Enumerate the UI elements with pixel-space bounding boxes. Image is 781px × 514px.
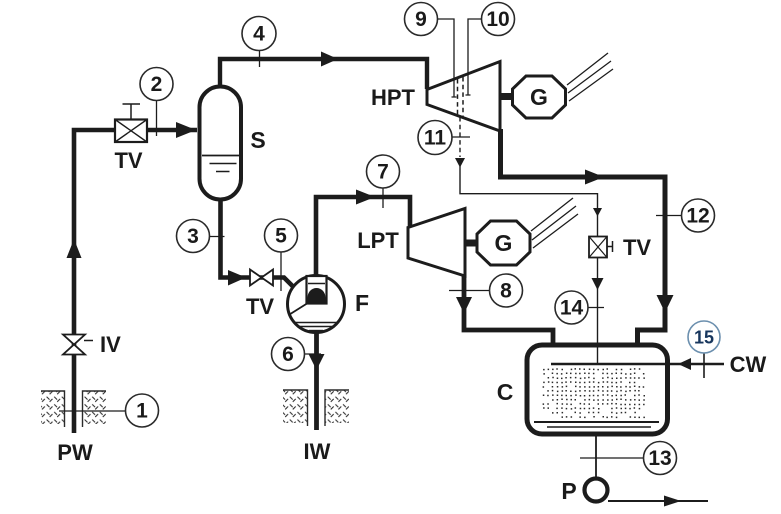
svg-text:G: G [495, 230, 513, 256]
generator G1 shaft [499, 93, 514, 100]
svg-text:IV: IV [100, 332, 121, 357]
generator G2 [477, 221, 530, 265]
transmission lines G1 [567, 53, 613, 101]
svg-text:8: 8 [500, 280, 512, 303]
valve TV3 [589, 237, 613, 258]
arrow on pump discharge [664, 496, 681, 507]
arrow on HPT exhaust [585, 170, 604, 185]
node 15 [688, 321, 720, 378]
svg-text:6: 6 [282, 343, 294, 366]
ground hatch left of PW [41, 391, 65, 427]
node 1 [59, 394, 159, 427]
svg-text:12: 12 [686, 205, 709, 228]
condenser C body [527, 345, 668, 434]
valve TV1 [115, 104, 147, 142]
svg-text:TV: TV [623, 235, 651, 260]
arrow before TV2 [228, 270, 246, 286]
wire: LPT exhaust to condenser [464, 274, 553, 346]
wire: HPT exhaust to condenser [501, 129, 666, 346]
node 6 [272, 338, 322, 371]
svg-text:IW: IW [304, 439, 331, 464]
ground hatch right of PW [83, 391, 107, 427]
arrow on steam line [321, 52, 338, 67]
node 4 [242, 17, 276, 68]
arrow CW into condenser [678, 358, 691, 370]
node 9 [405, 3, 457, 98]
separator S [200, 87, 242, 200]
svg-text:1: 1 [136, 400, 148, 423]
svg-text:11: 11 [424, 127, 447, 150]
cooling water line CW [551, 363, 724, 365]
node 7 [367, 155, 400, 208]
svg-text:S: S [250, 127, 265, 153]
svg-text:P: P [561, 478, 576, 504]
flasher F internals [290, 276, 339, 331]
ground hatch left of IW [283, 390, 308, 426]
arrow down LPT exhaust [456, 297, 472, 314]
svg-text:CW: CW [730, 352, 767, 377]
svg-text:3: 3 [187, 225, 199, 248]
transmission lines G2 [531, 198, 578, 248]
svg-text:14: 14 [560, 297, 584, 320]
extraction line below HPT [455, 117, 602, 237]
extraction dashed lines inside HPT [458, 77, 464, 118]
wire: steam line S to HPT [220, 59, 427, 90]
generator G1 [513, 76, 566, 118]
svg-text:TV: TV [246, 294, 274, 319]
arrow down right pipe [657, 295, 674, 313]
svg-text:G: G [530, 84, 548, 110]
node 11 [418, 121, 470, 155]
ground hatch right of IW [325, 390, 349, 426]
condenser level lines [534, 421, 659, 423]
svg-text:9: 9 [415, 8, 427, 31]
svg-text:F: F [355, 290, 369, 316]
condenser spray dots [543, 368, 645, 418]
svg-text:10: 10 [486, 8, 509, 31]
svg-text:4: 4 [253, 23, 265, 46]
svg-text:PW: PW [57, 440, 93, 465]
svg-text:13: 13 [648, 447, 671, 470]
arrow into separator [176, 122, 196, 138]
wire: steam line F to LPT [316, 197, 410, 279]
wire: brine line S bottom to flasher [221, 198, 299, 292]
arrow down IW pipe [309, 354, 325, 370]
node 12 [656, 199, 715, 232]
node 3 [177, 220, 225, 253]
extraction line TV3 to condenser [592, 257, 604, 345]
wire: IW injection pipe [314, 332, 319, 430]
svg-text:5: 5 [275, 225, 287, 248]
node 14 [555, 291, 604, 324]
arrow on LPT steam line [356, 190, 375, 205]
spray line inside condenser [597, 345, 599, 364]
node 8 [449, 274, 523, 307]
svg-text:C: C [497, 379, 514, 405]
pump P [585, 479, 608, 502]
svg-text:7: 7 [377, 161, 389, 184]
svg-text:TV: TV [114, 148, 142, 173]
node 10 [466, 3, 515, 96]
condensate line to pump [595, 434, 597, 478]
valve IV [63, 335, 93, 355]
arrow up on PW riser [67, 239, 82, 258]
node 13 [580, 442, 677, 475]
wire: PW riser pipe [74, 130, 197, 433]
svg-text:15: 15 [694, 328, 714, 348]
turbine LPT [408, 209, 465, 277]
pump discharge line [608, 500, 708, 502]
svg-text:LPT: LPT [357, 228, 399, 253]
svg-text:HPT: HPT [371, 85, 416, 110]
turbine HPT [427, 62, 500, 132]
node 5 [265, 219, 298, 291]
svg-text:2: 2 [151, 73, 163, 96]
node 2 [140, 68, 173, 137]
valve TV2 [250, 270, 273, 286]
flasher F [288, 276, 345, 333]
generator G2 shaft [464, 240, 478, 247]
